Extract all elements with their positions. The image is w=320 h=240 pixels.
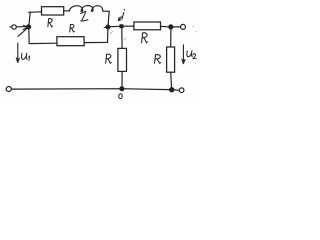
output terminal bottom-right bbox=[179, 88, 184, 93]
label R (top right series) bbox=[142, 33, 148, 43]
wire: resistor to node 3 bbox=[161, 25, 169, 27]
wire: right shunt resistor down to bottom rail bbox=[170, 72, 173, 89]
bottom rail wire bbox=[11, 88, 169, 91]
resistor R (right shunt) bbox=[167, 47, 175, 72]
label 0 bbox=[119, 94, 123, 99]
node 1 (junction dot) bbox=[106, 25, 110, 29]
wire: node A down to lower branch bbox=[29, 27, 57, 44]
wire: node 2 down to middle shunt resistor bbox=[121, 28, 123, 48]
wire stub left of node 1 bbox=[104, 26, 106, 28]
inductor L bbox=[70, 6, 104, 12]
wire: resistor to inductor bbox=[64, 10, 70, 12]
resistor R (top series) bbox=[42, 7, 64, 15]
label i bbox=[122, 9, 125, 19]
node A (junction dot) bbox=[27, 25, 31, 29]
wire: middle shunt resistor down to node 0 bbox=[121, 72, 123, 88]
wire: node 2 to right resistor bbox=[124, 25, 134, 27]
input terminal top-left bbox=[10, 25, 17, 29]
wire: inductor down to node 1 bbox=[103, 11, 109, 26]
label u2 bbox=[187, 51, 196, 59]
voltage arrow u2 bbox=[182, 45, 185, 64]
current arrow i bbox=[118, 17, 121, 21]
wire: node 3 to output terminal bbox=[173, 26, 181, 28]
label R (right shunt) bbox=[154, 55, 160, 64]
resistor R (middle shunt) bbox=[118, 48, 127, 71]
node 3 (junction dot) bbox=[169, 25, 173, 29]
label L bbox=[81, 11, 88, 21]
output terminal top-right bbox=[181, 24, 186, 29]
wire: node 1 to node 2 bbox=[108, 25, 120, 28]
wire: lower resistor up to node 1 bbox=[84, 28, 108, 43]
label u1 bbox=[21, 53, 29, 60]
wire: node 3 down to right shunt resistor bbox=[170, 29, 172, 47]
input current arrow (slash + head at node A) bbox=[18, 25, 28, 36]
node (bottom right junction dot) bbox=[170, 88, 174, 92]
resistor R (lower series) bbox=[57, 37, 84, 46]
wire: node A up to top branch bbox=[29, 12, 42, 27]
wire: junction to bottom-right terminal bbox=[174, 89, 179, 91]
wire overshoot tick at top-left corner bbox=[28, 11, 30, 13]
label R (top series) bbox=[48, 19, 53, 27]
wire: terminal to node A bbox=[16, 26, 26, 28]
label R (middle shunt) bbox=[106, 54, 112, 63]
input terminal bottom-left bbox=[6, 87, 11, 92]
voltage arrow u1 bbox=[16, 43, 19, 62]
node 0 (junction dot) bbox=[120, 87, 124, 91]
node 2 (junction, square dot) bbox=[120, 24, 124, 28]
resistor R (top right series) bbox=[134, 22, 161, 30]
label R (lower series) bbox=[70, 24, 75, 32]
speckle marks (scan noise) bbox=[5, 26, 196, 90]
